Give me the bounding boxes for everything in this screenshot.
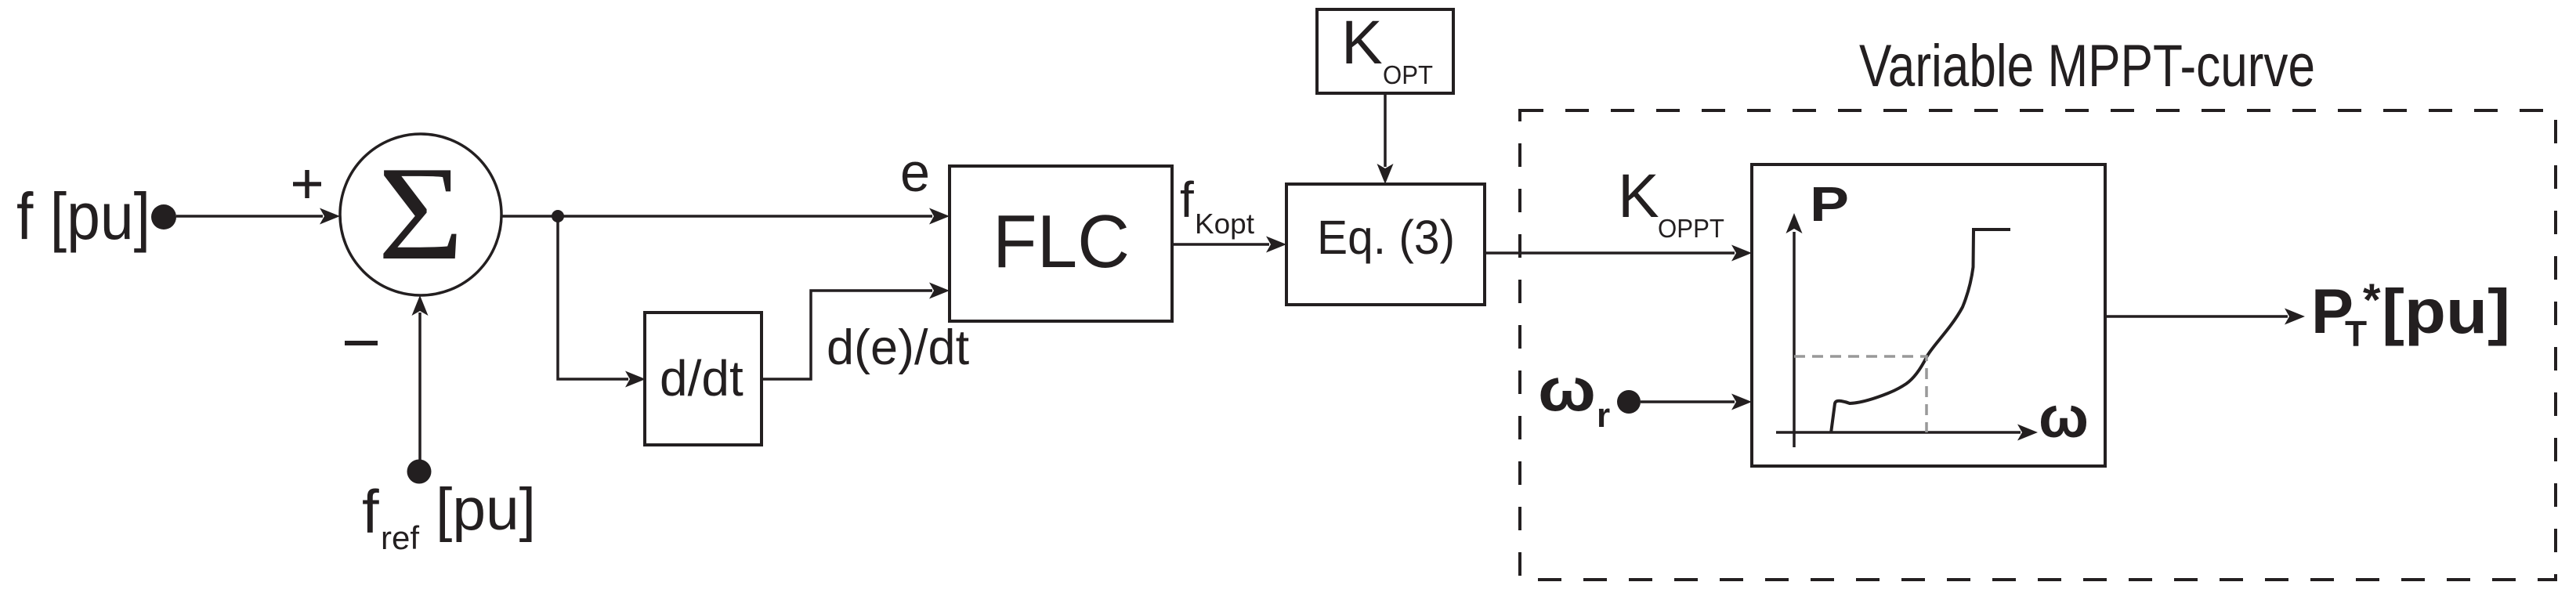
MPPT curve bbox=[1831, 230, 2010, 433]
arrowhead into FLC (e input) bbox=[929, 208, 950, 225]
svg-text:K: K bbox=[1618, 161, 1659, 230]
dashed box Variable MPPT-curve bbox=[1520, 110, 2556, 580]
arrowhead into d/dt bbox=[625, 371, 646, 388]
node f_ref terminal dot bbox=[407, 460, 432, 484]
wire d/dt output to FLC bbox=[763, 291, 932, 379]
arrowhead into Eq3 (f_Kopt) bbox=[1266, 237, 1286, 253]
wire FLC output to Eq3 bbox=[1172, 243, 1269, 246]
block Eq. (3) bbox=[1286, 184, 1485, 305]
arrowhead into summer (+ input) bbox=[320, 208, 340, 225]
svg-text:Σ: Σ bbox=[378, 139, 464, 288]
svg-text:f: f bbox=[362, 477, 379, 546]
wire f_ref vertical into summer bbox=[418, 313, 421, 460]
wire f input to summer bbox=[176, 215, 323, 218]
arrowhead P axis up bbox=[1786, 213, 1803, 233]
svg-text:[pu]: [pu] bbox=[2382, 277, 2510, 346]
node f [pu] terminal dot bbox=[151, 204, 176, 230]
svg-text:K: K bbox=[1341, 7, 1383, 77]
wire Eq3 output to MPPT block bbox=[1485, 251, 1735, 255]
node omega_r terminal dot bbox=[1617, 390, 1641, 414]
svg-text:r: r bbox=[1597, 396, 1610, 435]
svg-text:P: P bbox=[1810, 178, 1849, 232]
label + sign bbox=[293, 170, 321, 198]
wire MPPT output bbox=[2105, 315, 2288, 318]
block MPPT graph box bbox=[1752, 164, 2105, 466]
node junction e bbox=[552, 210, 564, 222]
wire omega_r to MPPT block bbox=[1641, 400, 1735, 403]
svg-text:ref: ref bbox=[381, 519, 419, 556]
svg-text:e: e bbox=[900, 142, 930, 203]
svg-text:[pu]: [pu] bbox=[436, 476, 536, 543]
omega axis (horizontal) bbox=[1776, 431, 2021, 434]
arrowhead omega axis right bbox=[2017, 425, 2038, 441]
svg-text:f [pu]: f [pu] bbox=[16, 179, 150, 253]
block d/dt bbox=[645, 313, 762, 445]
svg-text:d(e)/dt: d(e)/dt bbox=[827, 320, 970, 375]
svg-text:f: f bbox=[1180, 172, 1194, 228]
svg-text:Eq. (3): Eq. (3) bbox=[1317, 211, 1455, 264]
label minus sign bbox=[345, 341, 378, 345]
svg-text:FLC: FLC bbox=[993, 200, 1130, 284]
wire K_OPT down to Eq3 bbox=[1384, 93, 1387, 167]
wire summer output to FLC bbox=[501, 215, 932, 218]
arrowhead into summer (- input, up) bbox=[412, 295, 429, 316]
svg-text:OPPT: OPPT bbox=[1658, 214, 1724, 243]
dashed operating point lines bbox=[1794, 356, 1927, 432]
svg-text:Kopt: Kopt bbox=[1195, 208, 1254, 240]
block FLC bbox=[950, 166, 1172, 321]
wire junction down to d/dt bbox=[558, 216, 628, 379]
svg-text:ω: ω bbox=[1538, 355, 1596, 424]
block K_OPT bbox=[1317, 9, 1453, 93]
svg-text:OPT: OPT bbox=[1383, 60, 1433, 89]
arrowhead into MPPT box (omega_r) bbox=[1731, 394, 1752, 410]
svg-text:*: * bbox=[2363, 275, 2381, 326]
arrowhead into FLC (de/dt input) bbox=[929, 283, 950, 299]
svg-text:Variable MPPT-curve: Variable MPPT-curve bbox=[1859, 33, 2315, 99]
svg-text:ω: ω bbox=[2039, 385, 2089, 450]
arrowhead output P_T bbox=[2285, 309, 2305, 325]
summing junction circle S1 bbox=[340, 134, 501, 295]
arrowhead K_OPT down into Eq3 bbox=[1377, 164, 1394, 184]
svg-text:d/dt: d/dt bbox=[660, 350, 743, 407]
P axis (vertical) bbox=[1793, 232, 1796, 447]
arrowhead into MPPT box (K_OPPT) bbox=[1731, 245, 1752, 262]
